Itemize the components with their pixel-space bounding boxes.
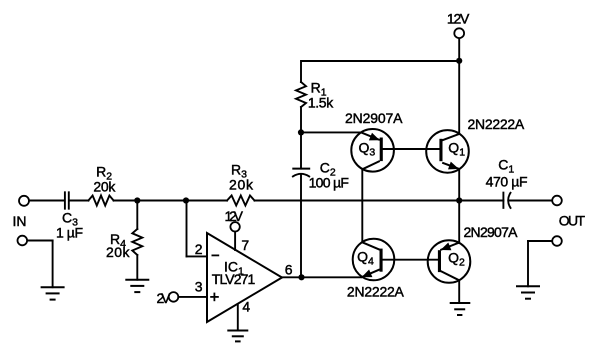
svg-text:2V: 2V xyxy=(157,290,172,306)
svg-text:1 µF: 1 µF xyxy=(56,225,83,241)
svg-text:TLV271: TLV271 xyxy=(212,271,256,287)
svg-text:6: 6 xyxy=(285,261,293,277)
svg-text:2N2907A: 2N2907A xyxy=(464,224,519,240)
svg-text:2N2907A: 2N2907A xyxy=(345,110,403,126)
svg-text:100 µF: 100 µF xyxy=(309,175,349,191)
svg-text:OUT: OUT xyxy=(559,212,586,228)
svg-text:3: 3 xyxy=(195,279,203,295)
svg-text:IN: IN xyxy=(13,213,27,229)
svg-text:1.5k: 1.5k xyxy=(308,95,334,111)
svg-text:7: 7 xyxy=(241,237,249,253)
svg-text:2N2222A: 2N2222A xyxy=(468,116,525,132)
svg-text:470 µF: 470 µF xyxy=(486,174,528,190)
svg-text:20k: 20k xyxy=(93,179,116,195)
svg-text:4: 4 xyxy=(242,299,250,315)
svg-text:20k: 20k xyxy=(229,177,254,193)
svg-text:12V: 12V xyxy=(447,11,470,27)
svg-text:12V: 12V xyxy=(225,208,244,224)
svg-text:20k: 20k xyxy=(106,244,131,260)
svg-text:2N2222A: 2N2222A xyxy=(347,284,405,300)
svg-text:2: 2 xyxy=(195,241,203,257)
